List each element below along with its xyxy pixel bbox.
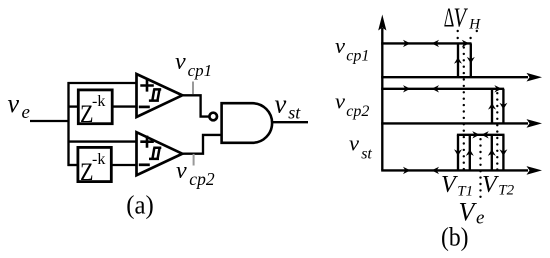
wire Z2 to U2 - input (111, 164, 137, 166)
svg-text:V: V (482, 172, 499, 198)
inverter bubble (209, 113, 217, 121)
v_cp1 falling edge at V_T2 (467, 43, 475, 77)
node v_e label (8, 89, 30, 123)
v_cp2 axis baseline (381, 119, 542, 128)
waveform label v_cp1 (335, 33, 369, 65)
label V_e (459, 197, 485, 228)
delay block Z2 (78, 147, 111, 186)
delay block Z1 (78, 90, 112, 128)
arrow left on v_st baseline (432, 167, 439, 174)
v_cp1 high level (381, 42, 471, 44)
v_st axis baseline (381, 166, 542, 175)
wire to U1 + input (68, 82, 138, 84)
label delta-V_H (444, 2, 482, 32)
arrow right at v_cp1 high end (462, 40, 469, 47)
svg-text:T2: T2 (498, 183, 514, 199)
arrow right on v_cp1 high (403, 40, 410, 47)
svg-text:-k: -k (92, 93, 105, 110)
v_st pulse top (457, 134, 505, 136)
svg-text:(a): (a) (126, 191, 154, 220)
svg-text:cp1: cp1 (188, 61, 213, 80)
svg-text:V: V (441, 172, 458, 198)
svg-text:v: v (335, 33, 345, 58)
svg-text:st: st (288, 103, 301, 123)
svg-text:e: e (22, 102, 30, 123)
v_cp2 rising edge at V_T2 (488, 89, 496, 124)
node v_st label (275, 88, 302, 122)
wire to Z1 input (68, 105, 79, 107)
svg-text:cp2: cp2 (346, 103, 369, 120)
AND gate U3 (222, 103, 273, 143)
comparator U2 (137, 132, 183, 175)
arrow right on v_st baseline (403, 167, 410, 174)
v_cp1 axis baseline (381, 73, 542, 82)
svg-text:v: v (335, 88, 345, 113)
svg-text:v: v (349, 131, 359, 156)
node v_cp2 label (176, 158, 215, 189)
dotted line V_T2 (496, 92, 498, 171)
svg-text:-k: -k (92, 151, 105, 168)
arrow right on v_st top (472, 131, 479, 138)
svg-text:V: V (454, 2, 469, 32)
svg-text:e: e (476, 207, 484, 228)
svg-text:cp1: cp1 (346, 47, 369, 64)
v_st left falling edge (454, 135, 462, 171)
label V_T1 (441, 172, 473, 200)
leader tick v_cp1 (192, 82, 194, 95)
wire U1 output to gate (181, 95, 210, 116)
arrow right at v_cp2 high end (494, 85, 501, 92)
y axis (378, 15, 386, 171)
v_st right falling edge (499, 135, 507, 171)
dotted hysteresis width marks under delta-V_H (457, 30, 478, 39)
v_cp2 high level (381, 88, 504, 90)
arrow left on v_cp1 high (432, 40, 439, 47)
wire U2 output to gate (181, 135, 223, 154)
label V_T2 (482, 172, 515, 199)
svg-text:v: v (176, 158, 187, 184)
dotted line V_T1 (463, 46, 465, 170)
svg-text:v: v (8, 89, 20, 118)
svg-text:v: v (275, 88, 287, 118)
leader tick v_cp2 (193, 154, 195, 166)
v_cp1 rising edge at V_T1 (454, 43, 462, 77)
wire to Z2 input (68, 164, 79, 166)
svg-text:(b): (b) (441, 223, 469, 252)
wire Z1 to U1 - input (112, 105, 137, 107)
arrow left on v_cp2 high (432, 85, 439, 92)
v_st rising edge at V_T2 (488, 135, 496, 171)
wire v_e input (30, 120, 70, 122)
v_cp2 falling edge (499, 89, 507, 124)
waveform label v_cp2 (335, 88, 369, 120)
comparator U1 (137, 74, 183, 117)
svg-text:cp2: cp2 (189, 169, 215, 189)
dotted line V_e (479, 138, 481, 198)
wire to U2 + input (68, 140, 138, 142)
svg-text:st: st (361, 146, 372, 163)
arrow right on v_cp2 high (403, 85, 410, 92)
node v_cp1 label (175, 49, 212, 80)
waveform label v_st (349, 131, 372, 163)
svg-text:H: H (468, 17, 481, 33)
v_st rising edge at V_T1 (466, 135, 474, 171)
wire input bus vertical (67, 82, 69, 166)
wire v_st output (272, 121, 308, 123)
arrow left on v_st top (481, 131, 488, 138)
svg-text:v: v (175, 49, 186, 75)
